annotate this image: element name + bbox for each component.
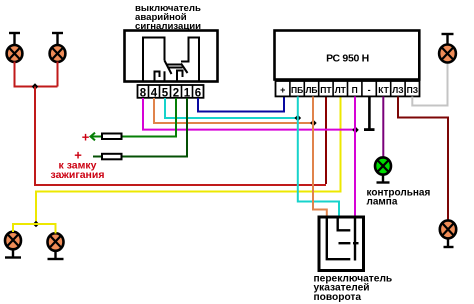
wire cyan pin5 to relay PB [165,98,298,118]
hazard switch box [125,31,218,82]
lamp HL4 bottom-left second [48,233,64,259]
wire green pin2 to fuse F1 [123,98,177,137]
wire gray PZ to right lamp [412,63,447,106]
svg-text:РС 950 Н: РС 950 Н [326,53,369,65]
wire yellow to HL3 [13,224,36,232]
node junction magenta P [352,127,359,134]
svg-text:П: П [352,85,358,95]
hazard switch pin row 8 4 5 2 1 6 [138,85,204,99]
turn signal switch box [319,217,364,271]
hazard switch inner contacts [143,38,199,83]
wire red trunk down and right to PT [35,87,326,186]
wire purple KT to control lamp [382,97,384,158]
wire magenta pin8 to relay P [143,98,355,130]
svg-text:ЛЗ: ЛЗ [392,85,403,95]
turn signal switch inner contacts [327,219,359,261]
wire cyan PB down to turn switch [298,97,339,216]
svg-text:поворота: поворота [314,292,362,303]
fuse F2 [93,154,122,160]
svg-text:ПТ: ПТ [320,85,332,95]
ground terminal minus [364,97,375,130]
node junction bottom-left lamps [33,221,40,228]
node junction cyan PB [295,115,302,122]
svg-text:6: 6 [195,87,201,99]
node junction top-left lamps [32,83,39,90]
relay pin row [276,81,420,96]
svg-text:2: 2 [173,87,179,99]
svg-text:КТ: КТ [378,85,389,95]
svg-text:1: 1 [184,87,191,99]
wire yellow to HL4 [36,224,56,234]
lamp HL2 top-left second [50,33,66,62]
svg-text:-: - [368,85,371,95]
svg-text:ПБ: ПБ [291,85,303,95]
svg-text:лампа: лампа [367,197,398,208]
svg-text:ПЗ: ПЗ [407,85,418,95]
wire magenta P down to turn switch [354,97,356,216]
svg-text:8: 8 [140,87,147,99]
node junction orange LB [310,120,317,127]
svg-text:4: 4 [151,87,158,99]
control lamp HL5 green [375,157,391,182]
svg-text:+: + [82,130,90,145]
svg-text:ЛБ: ЛБ [305,85,317,95]
wire dark green pin1 to fuse F2 [123,98,188,157]
svg-text:зажигания: зажигания [51,169,105,181]
lamp HL7 top-right [439,34,456,63]
relay PC 950 N box [275,31,420,80]
wire yellow LT trunk [36,97,341,225]
lamp HL6 bottom-right [440,220,456,247]
svg-text:сигнализации: сигнализации [135,21,201,32]
wire dark-red PT pin down [325,97,327,185]
lamp HL1 top-left (front left turn lamp) [7,33,23,62]
svg-text:ЛТ: ЛТ [335,85,347,95]
wire red from HL2 down [57,62,59,87]
wire red from HL1 down [15,62,58,87]
lamp HL3 bottom-left [5,232,21,258]
svg-text:5: 5 [162,87,169,99]
wire orange LB down to turn switch [313,97,327,216]
wire navy pin6 to relay plus [198,97,284,112]
wire orange pin4 to relay LB [154,98,313,123]
fuse F1 [91,133,122,141]
svg-text:+: + [280,85,285,95]
wire dark red LZ to rear lamp [398,97,448,221]
